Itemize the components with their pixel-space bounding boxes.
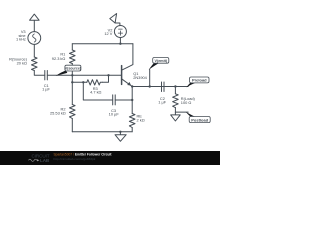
resistor RE [129, 114, 135, 132]
svg-text:V(emit): V(emit) [155, 59, 168, 63]
svg-text:http://circuitlab.com/c/gu833p: http://circuitlab.com/c/gu833pk [54, 157, 96, 161]
label V3 value [16, 29, 26, 42]
node R(Load) tap [174, 85, 176, 87]
probe Postload [186, 112, 211, 123]
probe Preload [187, 77, 210, 87]
label R(Source) value [9, 56, 27, 65]
wire RSource to C1 [34, 71, 45, 76]
node ground junction [119, 131, 121, 133]
svg-text:1 µF: 1 µF [158, 100, 166, 105]
label RE value [137, 114, 145, 123]
svg-text:100 Ω: 100 Ω [181, 100, 192, 105]
wire RLoad bottom stub [175, 111, 188, 113]
ground flag (top of V2) [110, 14, 120, 26]
svg-text:20 kΩ: 20 kΩ [17, 61, 27, 66]
resistor R(Source) [32, 57, 38, 71]
resistor R1 [70, 44, 76, 76]
wire C3 branch [83, 82, 112, 100]
label C1 value [42, 83, 50, 92]
resistor R3 [87, 75, 109, 85]
svg-text:Postload: Postload [191, 117, 208, 122]
node V(emit) tap [149, 85, 151, 87]
top rail wire [72, 43, 133, 45]
svg-text:2N3904: 2N3904 [133, 75, 147, 80]
svg-text:92.3 kΩ: 92.3 kΩ [52, 56, 66, 61]
probe V(emit) [149, 58, 169, 70]
wire probe V(emit) stem [149, 70, 151, 87]
label V2 value [104, 28, 112, 36]
wire emitter column down [131, 87, 133, 114]
label R2 value [50, 107, 66, 116]
node: V2 joins rail [119, 43, 121, 45]
resistor R(Load) [173, 87, 179, 113]
node junction R3 to base wire [107, 74, 109, 76]
svg-text:10 µF: 10 µF [109, 111, 120, 116]
label R1 value [52, 51, 66, 61]
label C2 value [158, 96, 166, 105]
transistor Q1 2N3904 [122, 44, 133, 87]
bottom rail wire [72, 131, 132, 133]
svg-text:1 kHz: 1 kHz [16, 37, 26, 42]
CircuitLab logo [29, 153, 50, 163]
wire emitter node to C2 and RLoad [132, 86, 188, 88]
svg-text:25.53 kΩ: 25.53 kΩ [50, 110, 66, 115]
label Q1 value [133, 71, 147, 80]
svg-text:1 µF: 1 µF [42, 87, 50, 92]
voltage source V3 [28, 32, 41, 45]
node C3 joins emitter column [131, 99, 133, 101]
ground (below RLoad) [171, 112, 181, 121]
ground (bottom center) [115, 132, 126, 142]
label R(Load) value [181, 96, 196, 105]
ground (top of V3, triangle up) [30, 14, 39, 32]
svg-text:2 kΩ: 2 kΩ [137, 117, 145, 122]
label C3 value [109, 108, 120, 117]
svg-text:4.7 kΩ: 4.7 kΩ [90, 90, 101, 95]
footer title text [54, 153, 113, 161]
capacitor C3 [113, 95, 132, 105]
wire branch to R3 [72, 81, 87, 83]
voltage source V2 [114, 26, 126, 44]
node junction R3 branch [71, 81, 73, 83]
wire column node B down branch [71, 75, 73, 104]
wire C1 to base (node B) [47, 74, 121, 76]
probe V(source) [56, 65, 81, 76]
svg-text:Preload: Preload [192, 78, 207, 83]
resistor R2 [70, 105, 76, 132]
svg-text:12 V: 12 V [104, 31, 112, 36]
svg-text:LAB: LAB [40, 158, 50, 163]
wire V3 to RSource [33, 44, 35, 57]
node junction C3 drop [82, 81, 84, 83]
capacitor C2 [162, 82, 165, 92]
footer bar [0, 151, 220, 165]
capacitor C1 [45, 71, 48, 80]
node emitter junction [131, 85, 133, 87]
svg-text:Spartan5007 / Emitter Follower: Spartan5007 / Emitter Follower Circuit [54, 153, 113, 157]
label R3 value [90, 86, 101, 95]
svg-text:V(source): V(source) [65, 67, 81, 71]
node junction C1/R1 [71, 74, 73, 76]
